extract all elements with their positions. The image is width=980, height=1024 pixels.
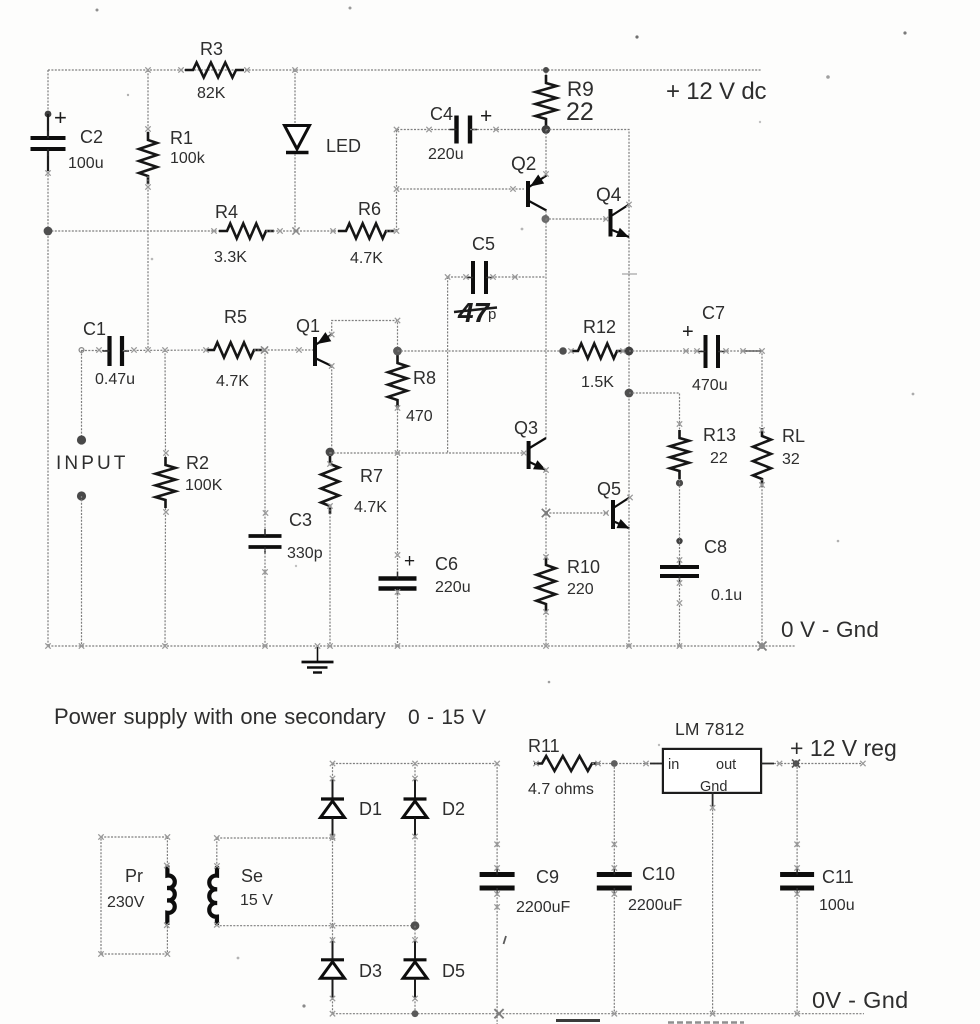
wire rectifier top rail: [333, 763, 498, 765]
wire input lower column: [81, 496, 83, 646]
node output junction dot: [625, 347, 634, 356]
wire C1 left lead: [82, 350, 110, 352]
svg-text:32: 32: [782, 451, 800, 468]
wire regulator output: [774, 763, 863, 765]
svg-text:+: +: [404, 551, 415, 572]
wire D1 cathode lead: [332, 764, 334, 780]
svg-text:2200uF: 2200uF: [628, 897, 682, 914]
capacitor C2: [31, 138, 66, 149]
svg-text:0 V - Gnd: 0 V - Gnd: [781, 617, 879, 642]
capacitor C1: [110, 336, 123, 366]
svg-text:R12: R12: [583, 317, 616, 337]
svg-text:D5: D5: [442, 961, 465, 981]
capacitor C2 positive terminal dot: [45, 111, 52, 118]
svg-text:R11: R11: [528, 736, 560, 756]
svg-text:+ 12 V dc: + 12 V dc: [666, 78, 766, 105]
wire R6 to corner: [386, 230, 397, 232]
svg-text:INPUT: INPUT: [56, 453, 129, 474]
transformer primary coil Pr: [167, 866, 174, 926]
wire C9 column top: [496, 764, 498, 873]
svg-text:22: 22: [566, 98, 594, 126]
wire R7 top lead: [329, 452, 331, 464]
wire R12 right lead: [617, 350, 629, 352]
svg-text:R8: R8: [413, 368, 436, 388]
svg-text:+ 12 V reg: + 12 V reg: [790, 735, 897, 761]
svg-text:R6: R6: [358, 199, 381, 219]
wire R13 branch: [629, 393, 680, 437]
scan artifact cropped text: [668, 1021, 744, 1023]
wire RL bottom lead: [761, 479, 763, 646]
wire C6 bottom lead: [397, 590, 399, 646]
wire R1 bottom lead: [147, 176, 149, 350]
node R12 left dot: [559, 347, 567, 355]
svg-text:100u: 100u: [819, 897, 855, 914]
svg-text:R4: R4: [215, 202, 238, 222]
svg-text:C6: C6: [435, 554, 458, 574]
wire +12V top rail: [48, 69, 762, 71]
capacitor C8: [660, 567, 699, 576]
wire C11 column bottom: [796, 891, 798, 1014]
wire Q2 base tap: [397, 188, 525, 190]
wire secondary bottom lead: [217, 924, 415, 927]
resistor R11: [534, 756, 600, 771]
resistor R2: [156, 457, 176, 508]
svg-text:out: out: [716, 757, 736, 773]
svg-text:R1: R1: [170, 128, 193, 148]
scan artifact apostrophe: [504, 936, 507, 944]
wire junction row y=453 to Q3 base: [330, 452, 524, 454]
svg-text:1.5K: 1.5K: [581, 374, 614, 391]
resistor R6: [338, 224, 394, 239]
svg-text:in: in: [668, 757, 679, 773]
resistor R12: [570, 344, 625, 359]
svg-text:LED: LED: [326, 136, 361, 156]
transistor Q3: [527, 441, 531, 469]
svg-text:47: 47: [457, 297, 491, 328]
svg-text:+: +: [54, 105, 67, 130]
svg-text:Se: Se: [241, 866, 263, 886]
wire C5 left lead: [448, 276, 471, 278]
wire C7 left lead: [629, 350, 704, 352]
svg-text:Q5: Q5: [597, 479, 621, 499]
wire left column (C2 branch): [47, 70, 49, 136]
resistor R3: [185, 63, 244, 78]
wire R2 top lead: [164, 350, 167, 457]
wire C9 column bottom: [496, 891, 498, 1024]
LED diode: [285, 126, 310, 150]
capacitor C11: [780, 875, 814, 889]
wire R8 bottom column to C6: [397, 405, 399, 576]
capacitor C5: [473, 261, 486, 294]
resistor R1: [139, 132, 157, 184]
resistor R13: [670, 430, 689, 479]
wire D3 anode lead: [332, 998, 334, 1014]
wire C5 left column: [447, 277, 449, 453]
wire Q2 collector to node: [545, 211, 547, 220]
wire C7 right lead solid segment: [744, 350, 762, 352]
wire LED top lead: [294, 70, 296, 125]
wire regulator ground solid stub: [712, 792, 714, 806]
wire Q1 upper diag to feedback corner: [332, 321, 398, 352]
wire R11 to regulator: [592, 763, 663, 765]
wire node to Q4 collector column: [546, 130, 629, 352]
wire secondary top wire: [217, 837, 333, 839]
svg-text:Power supply with one secondar: Power supply with one secondary: [54, 704, 386, 729]
capacitor C10: [597, 875, 632, 889]
wire C3 bottom lead: [264, 549, 266, 646]
wire left column lower: [47, 151, 49, 646]
svg-text:C7: C7: [702, 303, 725, 323]
transistor Q4: [609, 209, 613, 237]
svg-text:0 - 15 V: 0 - 15 V: [408, 706, 486, 729]
node INPUT lower terminal dot: [77, 491, 86, 500]
svg-text:D1: D1: [359, 799, 382, 819]
wire bias row y=231: [48, 230, 227, 232]
wire C10 column bottom: [613, 891, 615, 1014]
resistor R10: [537, 557, 556, 612]
node C11 top rail dot: [793, 760, 799, 766]
svg-text:Q1: Q1: [296, 316, 320, 336]
diode D3: [332, 940, 334, 960]
wire input terminal column: [81, 350, 83, 440]
svg-text:Q2: Q2: [511, 154, 536, 175]
regulator U1 LM7812 box: [663, 749, 761, 793]
ground: [317, 646, 319, 662]
diode D1: [332, 779, 334, 799]
node feedback junction dot: [326, 448, 335, 457]
wire D5 cathode lead: [414, 926, 416, 940]
wire Q1 lower lead down: [331, 366, 333, 452]
wire C5 right lead: [488, 276, 546, 278]
wire C8 bottom lead: [679, 578, 681, 646]
wire LED bottom lead: [294, 154, 296, 231]
resistor R8: [388, 355, 407, 408]
wire D5 anode lead: [414, 998, 416, 1014]
capacitor C7: [706, 335, 719, 368]
svg-text:C3: C3: [289, 510, 312, 530]
wire C7 right lead to RL column: [720, 351, 762, 436]
diode D5: [414, 940, 416, 960]
svg-text:R10: R10: [567, 557, 600, 577]
wire R10 bottom lead: [545, 612, 547, 646]
wire D2 cathode lead: [414, 764, 416, 780]
wire regulator input solid stub: [650, 763, 663, 765]
resistor RL: [753, 428, 771, 487]
wire junction node markers power supply: [330, 761, 335, 766]
transistor Q5: [611, 500, 615, 529]
wire Q2 collector to Q4 base: [546, 218, 607, 220]
resistor R9: [536, 75, 557, 127]
wire stub tick: [622, 273, 637, 275]
capacitor C9: [480, 875, 515, 889]
wire 0V bottom rail: [48, 645, 796, 647]
svg-text:4.7 ohms: 4.7 ohms: [528, 781, 594, 798]
svg-text:3.3K: 3.3K: [214, 249, 247, 266]
svg-text:R7: R7: [360, 466, 383, 486]
svg-text:100k: 100k: [170, 150, 206, 167]
svg-text:C11: C11: [822, 867, 854, 887]
wire D3 cathode column: [332, 838, 334, 940]
transistor Q1: [313, 337, 317, 366]
svg-text:100u: 100u: [68, 155, 104, 172]
resistor R7: [321, 456, 339, 514]
node R8 top junction dot: [393, 347, 402, 356]
svg-text:2200uF: 2200uF: [516, 899, 570, 916]
svg-text:Q4: Q4: [596, 185, 622, 206]
svg-text:C5: C5: [472, 234, 495, 254]
svg-text:D3: D3: [359, 961, 382, 981]
svg-text:Gnd: Gnd: [700, 779, 727, 795]
wire junction node markers: [145, 67, 150, 72]
wire C11 column top: [796, 764, 798, 873]
capacitor C3: [249, 536, 282, 547]
svg-text:100K: 100K: [185, 477, 223, 494]
wire C4 right lead: [470, 129, 546, 131]
node C8 top dot: [676, 538, 682, 544]
resistor R4: [219, 224, 274, 239]
node C10 top rail dot: [611, 760, 618, 767]
svg-text:C2: C2: [80, 127, 103, 147]
svg-text:4.7K: 4.7K: [350, 250, 383, 267]
svg-text:220u: 220u: [435, 579, 471, 596]
wire power supply 0V rail: [333, 1013, 865, 1015]
svg-text:4.7K: 4.7K: [354, 499, 387, 516]
svg-text:82K: 82K: [197, 85, 226, 102]
wire C3 top lead: [264, 350, 266, 534]
svg-text:330p: 330p: [287, 545, 323, 562]
svg-text:220: 220: [567, 581, 594, 598]
svg-text:R13: R13: [703, 425, 736, 445]
svg-text:D2: D2: [442, 799, 465, 819]
svg-text:R2: R2: [186, 453, 209, 473]
node secondary bottom junction dot: [411, 921, 420, 930]
wire C1 right lead: [123, 349, 211, 352]
capacitor C6: [379, 579, 417, 589]
wire R7 bottom lead: [329, 506, 331, 646]
node R13 branch dot: [625, 389, 634, 398]
wire corner column x=396 up to C4: [397, 130, 457, 232]
node C2 row dot: [44, 227, 53, 236]
wire R5 to Q1 base: [254, 349, 313, 351]
node INPUT upper terminal dot: [77, 435, 86, 444]
svg-text:C1: C1: [83, 319, 106, 339]
capacitor C4: [457, 116, 471, 144]
svg-text:4.7K: 4.7K: [216, 373, 249, 390]
wire primary box: [101, 837, 167, 954]
svg-text:470: 470: [406, 408, 433, 425]
node R13 bottom dot: [676, 479, 683, 486]
wire Q3 emitter column: [545, 470, 547, 557]
node Q2 collector junction dot: [542, 215, 550, 223]
svg-text:LM 7812: LM 7812: [675, 719, 745, 739]
wire R13 to C8: [679, 479, 681, 565]
svg-text:C8: C8: [704, 537, 727, 557]
wire D2 anode lead: [414, 837, 416, 926]
svg-text:0.47u: 0.47u: [95, 371, 135, 388]
wire R4 to R6: [266, 230, 346, 232]
wire secondary top lead: [216, 838, 218, 866]
node R9 top rail dot: [543, 67, 549, 73]
transformer secondary coil Se: [209, 866, 217, 925]
wire Q2 emitter lead: [545, 130, 547, 175]
svg-text:22: 22: [710, 450, 728, 467]
wire Q5 base tap: [546, 512, 608, 514]
svg-text:220u: 220u: [428, 146, 464, 163]
svg-text:15 V: 15 V: [240, 892, 273, 909]
svg-text:C10: C10: [642, 864, 675, 884]
svg-text:Q3: Q3: [514, 418, 538, 438]
svg-text:+: +: [480, 105, 492, 128]
wire C10 column top: [613, 764, 615, 873]
svg-text:Pr: Pr: [125, 866, 143, 886]
node R9 bottom dot: [542, 125, 551, 134]
svg-text:RL: RL: [782, 426, 805, 446]
svg-text:0.1u: 0.1u: [711, 587, 742, 604]
svg-text:+: +: [682, 321, 694, 343]
transistor Q2: [526, 181, 530, 207]
svg-text:C4: C4: [430, 104, 453, 124]
diode D2: [414, 779, 416, 799]
wire VAS output row y=351: [398, 350, 564, 352]
wire VAS column x=546: [545, 219, 547, 438]
wire R2 bottom lead: [164, 508, 167, 646]
svg-text:R5: R5: [224, 307, 247, 327]
svg-text:p: p: [488, 306, 496, 323]
wire R9 top lead: [545, 70, 547, 76]
svg-text:470u: 470u: [692, 377, 728, 394]
svg-text:C9: C9: [536, 867, 559, 887]
scan noise specks: [96, 9, 99, 12]
wire regulator output solid stub: [761, 763, 774, 765]
wire output column x=629 lower: [628, 351, 630, 646]
wire regulator ground lead: [712, 806, 714, 1014]
wire primary top lead: [166, 837, 168, 866]
svg-text:0V - Gnd: 0V - Gnd: [812, 987, 908, 1013]
wire R1 top lead: [147, 70, 149, 140]
resistor R5: [206, 343, 262, 358]
scan artifact dark dash: [556, 1019, 600, 1022]
svg-text:230V: 230V: [107, 894, 145, 911]
svg-text:R3: R3: [200, 39, 223, 59]
